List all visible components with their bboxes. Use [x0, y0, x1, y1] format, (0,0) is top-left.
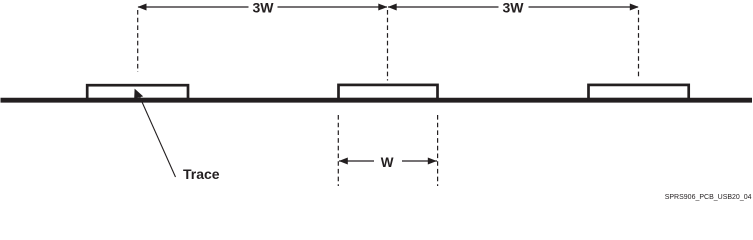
- dimension line 3W left segment b: [278, 6, 388, 8]
- arrowhead right end of W dimension: [428, 158, 437, 165]
- dimension line 3W left segment a: [138, 6, 249, 8]
- dimension line 3W right segment a: [388, 6, 499, 8]
- leader line from Trace label: [138, 93, 176, 177]
- trace 3: [589, 85, 689, 99]
- svg-text:3W: 3W: [253, 0, 275, 16]
- trace 2: [339, 85, 438, 99]
- arrowhead right end of second 3W dimension: [630, 4, 639, 11]
- extension line W right (trace 2 right edge): [437, 115, 439, 186]
- ground plane line: [1, 98, 753, 103]
- extension line from trace 3 center: [638, 10, 640, 78]
- dimension line W left segment: [339, 160, 374, 162]
- arrowhead left end of W dimension: [339, 158, 348, 165]
- svg-text:SPRS906_PCB_USB20_04: SPRS906_PCB_USB20_04: [665, 194, 752, 201]
- extension line from trace 2 center: [387, 10, 389, 81]
- svg-text:W: W: [381, 155, 394, 170]
- arrowhead right end of first 3W dimension: [378, 4, 387, 11]
- extension line from trace 1 center: [137, 10, 139, 72]
- svg-text:Trace: Trace: [183, 166, 220, 182]
- svg-text:3W: 3W: [503, 0, 525, 16]
- arrowhead left end of first 3W dimension: [138, 4, 147, 11]
- arrowhead left end of second 3W dimension: [388, 4, 397, 11]
- extension line W left (trace 2 left edge): [337, 115, 339, 186]
- leader arrowhead pointing to trace 1: [134, 89, 143, 99]
- trace 1: [87, 85, 188, 99]
- dimension line W right segment: [402, 160, 437, 162]
- dimension line 3W right segment b: [529, 6, 639, 8]
